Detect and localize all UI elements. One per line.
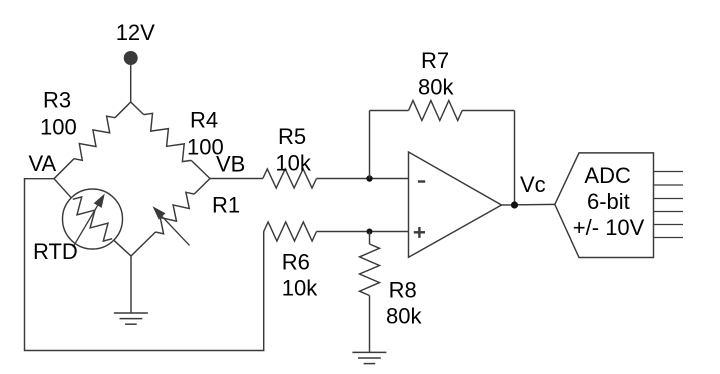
ground (bridge) [114, 313, 148, 324]
svg-text:+/- 10V: +/- 10V [573, 215, 645, 240]
svg-text:R1: R1 [212, 193, 240, 218]
resistor R3 (bridge upper-left arm) [54, 102, 131, 179]
junction node (inverting input / feedback) [366, 175, 372, 181]
label R4 [190, 108, 218, 133]
svg-text:100: 100 [40, 115, 77, 140]
svg-text:VA: VA [29, 151, 57, 176]
wire bridge bottom to ground [130, 256, 132, 313]
node VB label [216, 152, 245, 177]
svg-text:R5: R5 [278, 124, 306, 149]
wire VA to R6 (left and bottom feed wire) [24, 179, 265, 351]
svg-text:Vc: Vc [520, 172, 546, 197]
svg-text:10k: 10k [275, 151, 311, 176]
resistor R4 (bridge upper-right arm) [131, 102, 210, 179]
wire feedback right vertical [514, 111, 516, 206]
ADC block [555, 153, 654, 258]
svg-text:6-bit: 6-bit [587, 189, 630, 214]
label R4 value 100 [187, 135, 224, 160]
ground (R8) [352, 352, 386, 363]
svg-text:R6: R6 [282, 250, 310, 275]
svg-text:80k: 80k [418, 75, 454, 100]
resistor R6 [264, 222, 317, 241]
label R7 [421, 48, 449, 73]
junction node (non-inverting input / R8) [367, 229, 373, 235]
svg-text:R8: R8 [389, 278, 417, 303]
wire R5 to inverting input [317, 178, 409, 180]
label R5 value 10k [275, 151, 311, 176]
svg-text:10k: 10k [282, 276, 318, 301]
resistor R7 (feedback) [370, 101, 515, 121]
svg-text:ADC: ADC [584, 163, 631, 188]
label ADC 6-bit [587, 189, 630, 214]
ADC output pins (6 bits) [654, 172, 684, 238]
op-amp U1 [409, 152, 502, 257]
resistor R5 [263, 169, 317, 188]
wire 12V dot to bridge top node [130, 64, 132, 102]
svg-text:VB: VB [216, 152, 245, 177]
label R6 [282, 250, 310, 275]
svg-text:80k: 80k [386, 304, 422, 329]
label R8 [389, 278, 417, 303]
label RTD [33, 239, 78, 264]
svg-text:R4: R4 [190, 108, 218, 133]
wire op-amp output to ADC [502, 203, 555, 206]
RTD sensor (bridge lower-left arm) [54, 179, 131, 256]
svg-text:R7: R7 [421, 48, 449, 73]
label R3 value 100 [40, 115, 77, 140]
node VA label [29, 151, 57, 176]
wire R6 to non-inverting input [317, 231, 409, 233]
label ADC [584, 163, 631, 188]
wire feedback left vertical [369, 111, 371, 179]
label R6 value 10k [282, 276, 318, 301]
svg-text:RTD: RTD [33, 239, 78, 264]
svg-text:12V: 12V [116, 20, 155, 45]
wire VB to R5 [210, 178, 263, 180]
label ADC +/- 10V [573, 215, 645, 240]
variable resistor R1 (bridge lower-right arm) [131, 179, 210, 257]
label R1 [212, 193, 240, 218]
resistor R8 [360, 232, 380, 353]
label R8 value 80k [386, 304, 422, 329]
12V terminal dot [124, 51, 138, 65]
svg-text:R3: R3 [43, 88, 71, 113]
label R5 [278, 124, 306, 149]
node Vc label [520, 172, 546, 197]
label 12V supply [116, 20, 155, 45]
output junction node Vc [511, 201, 518, 208]
label R7 value 80k [418, 75, 454, 100]
label R3 [43, 88, 71, 113]
